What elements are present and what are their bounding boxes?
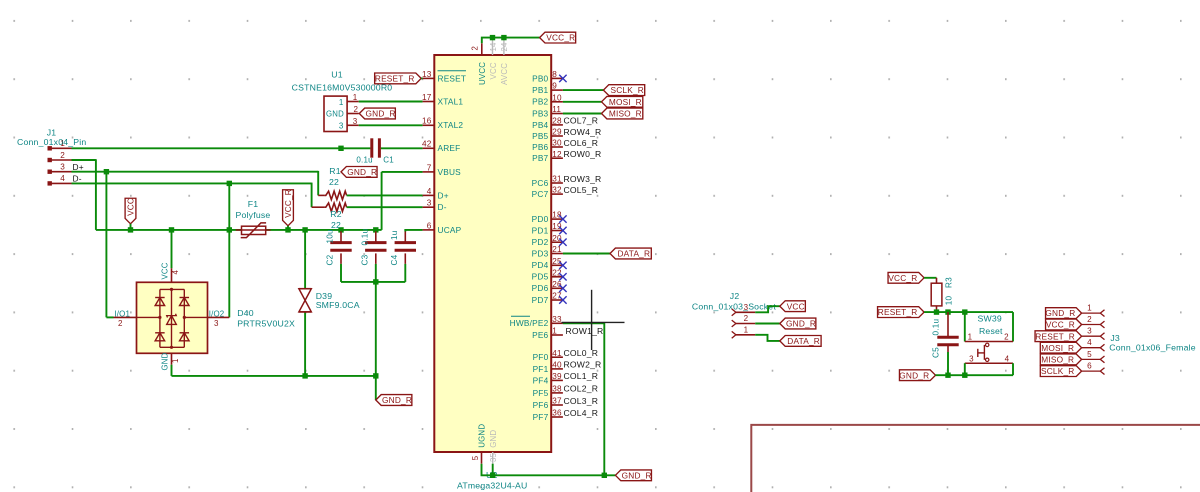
junction C5 top: [945, 309, 950, 314]
svg-text:2: 2: [354, 105, 359, 114]
svg-text:DATA_R: DATA_R: [617, 249, 650, 259]
connector J1 pins: [48, 146, 52, 150]
wire C1 right lead to AREF: [381, 147, 423, 149]
wire D- jog down to R2: [311, 183, 313, 208]
svg-text:SW39: SW39: [977, 314, 1001, 324]
svg-text:PF7: PF7: [533, 412, 549, 422]
pin J3 6: [1082, 370, 1101, 372]
junction SW left top: [962, 309, 967, 314]
junction AVCC pin top: [501, 35, 506, 40]
pin J3 3: [1082, 335, 1101, 337]
svg-text:COL2_R: COL2_R: [564, 384, 599, 394]
svg-text:GND: GND: [326, 110, 344, 119]
wire D- branch down to D40 I/O2: [228, 183, 230, 317]
svg-text:37: 37: [552, 397, 562, 406]
junction GND pin bottom: [490, 473, 495, 478]
svg-text:U1: U1: [331, 70, 343, 80]
global label RESET_R: [375, 73, 422, 84]
svg-text:PD4: PD4: [532, 260, 549, 270]
svg-text:14: 14: [489, 42, 498, 52]
svg-text:3: 3: [1087, 327, 1092, 336]
wire R1 to D+ pin: [347, 194, 423, 196]
svg-text:R2: R2: [330, 209, 342, 219]
svg-text:3: 3: [744, 303, 749, 312]
svg-text:J1: J1: [47, 128, 57, 138]
svg-text:ROW3_R: ROW3_R: [564, 174, 602, 184]
wire PB3 to MISO_R: [563, 113, 602, 115]
svg-text:22: 22: [552, 268, 562, 277]
resistor R1: [324, 191, 346, 199]
svg-text:30: 30: [552, 139, 562, 148]
svg-text:MISO_R: MISO_R: [609, 109, 642, 119]
svg-text:UVCC: UVCC: [478, 62, 487, 85]
junction D39 top: [302, 227, 307, 232]
wire D40 VCC pin: [171, 230, 173, 268]
wire PD3 to DATA_R: [563, 253, 610, 255]
pin J3 1: [1082, 312, 1101, 314]
svg-text:3: 3: [353, 117, 358, 126]
svg-text:C2: C2: [326, 254, 335, 265]
global label MISO_R: [602, 108, 643, 119]
svg-text:33: 33: [552, 315, 562, 324]
svg-text:2: 2: [1087, 315, 1092, 324]
svg-text:PC7: PC7: [532, 189, 549, 199]
wire SW left vertical: [964, 312, 966, 341]
svg-text:RESET_R: RESET_R: [1035, 331, 1075, 341]
wire J2 pin1 to DATA_R: [755, 335, 780, 341]
svg-text:10: 10: [945, 296, 954, 306]
svg-text:HWB/PE2: HWB/PE2: [510, 318, 549, 328]
svg-text:2: 2: [1004, 333, 1009, 342]
wire C5 top lead: [947, 312, 949, 337]
wire R3 top lead: [936, 278, 938, 283]
svg-text:4: 4: [60, 174, 65, 183]
wire reset row: [924, 311, 1013, 313]
svg-text:28: 28: [552, 117, 562, 126]
svg-text:GND_R: GND_R: [1045, 308, 1075, 318]
power label VCC_R: [283, 190, 294, 226]
svg-text:8: 8: [552, 70, 557, 79]
svg-text:2: 2: [60, 151, 65, 160]
global label GND_R at VBUS: [341, 167, 377, 178]
svg-text:PB1: PB1: [532, 85, 548, 95]
svg-text:PD2: PD2: [532, 237, 549, 247]
junction D+ branch: [104, 169, 109, 174]
svg-text:PB3: PB3: [532, 108, 548, 118]
svg-text:1: 1: [171, 358, 180, 363]
svg-text:22: 22: [331, 220, 341, 230]
fuse F1: [242, 226, 266, 234]
svg-text:1: 1: [1087, 304, 1092, 313]
svg-text:COL5_R: COL5_R: [564, 185, 599, 195]
svg-text:32: 32: [552, 186, 562, 195]
svg-text:MOSI_R: MOSI_R: [1041, 343, 1074, 353]
svg-text:PD7: PD7: [532, 295, 549, 305]
svg-text:PRTR5V0U2X: PRTR5V0U2X: [237, 319, 295, 329]
svg-text:1: 1: [552, 327, 557, 336]
wire VBUS: [382, 171, 423, 173]
svg-text:1u: 1u: [390, 230, 399, 240]
svg-text:COL6_R: COL6_R: [564, 138, 599, 148]
junction at C1 left node: [338, 146, 343, 151]
wire J2 pin3 to VCC: [755, 306, 780, 312]
wire VCC_R to R3: [924, 277, 936, 279]
svg-text:36: 36: [552, 409, 562, 418]
svg-text:42: 42: [422, 140, 432, 149]
svg-text:ROW4_R: ROW4_R: [564, 127, 602, 137]
pin D40 I/O1: [114, 316, 137, 318]
svg-text:11: 11: [552, 105, 561, 114]
svg-text:GND_R: GND_R: [382, 395, 412, 405]
wire C4 top to UCAP: [405, 230, 422, 232]
svg-text:SMF9.0CA: SMF9.0CA: [316, 300, 360, 310]
svg-text:31: 31: [552, 175, 562, 184]
svg-text:38: 38: [552, 385, 562, 394]
resistor R2: [324, 203, 346, 211]
global label VCC_R reset: [888, 272, 924, 283]
wire R3 bottom lead: [936, 306, 938, 312]
svg-text:3: 3: [214, 319, 219, 328]
svg-text:C4: C4: [390, 254, 399, 265]
ic right pin stubs: [551, 77, 563, 79]
svg-text:D+: D+: [438, 190, 449, 200]
wire SW pin3 drop: [964, 363, 966, 375]
svg-text:COL0_R: COL0_R: [564, 348, 599, 358]
svg-text:COL7_R: COL7_R: [564, 116, 599, 126]
svg-text:PD3: PD3: [532, 248, 549, 258]
svg-text:PB4: PB4: [532, 120, 548, 130]
pin J3 5: [1082, 358, 1101, 360]
svg-text:0.1u: 0.1u: [932, 319, 941, 336]
svg-text:3: 3: [60, 163, 65, 172]
svg-text:41: 41: [552, 349, 562, 358]
svg-text:ATmega32U4-AU: ATmega32U4-AU: [457, 480, 528, 490]
global label VCC_R top: [540, 32, 576, 43]
svg-text:24: 24: [500, 42, 509, 52]
junction VCC pill: [128, 227, 133, 232]
svg-text:PD6: PD6: [532, 283, 549, 293]
svg-text:GND_R: GND_R: [786, 319, 816, 329]
svg-text:UGND: UGND: [478, 424, 487, 448]
wire J1 pin1 to C1/AREF net: [72, 147, 342, 149]
svg-text:XTAL1: XTAL1: [438, 96, 464, 106]
svg-text:PF4: PF4: [533, 375, 549, 385]
wire SW pin4 drop: [1012, 363, 1014, 375]
svg-text:VCC: VCC: [127, 198, 136, 216]
svg-text:AREF: AREF: [438, 143, 461, 153]
svg-text:PD5: PD5: [532, 272, 549, 282]
svg-text:4: 4: [1005, 354, 1010, 363]
svg-text:R3: R3: [945, 277, 954, 288]
wire SW right vertical: [1012, 312, 1014, 341]
global label GND_R J3: [1046, 308, 1082, 319]
svg-text:Conn_01x04_Pin: Conn_01x04_Pin: [17, 137, 86, 147]
svg-text:PB0: PB0: [532, 73, 548, 83]
capacitor C4: [404, 231, 406, 242]
svg-text:F1: F1: [248, 199, 259, 209]
svg-text:J3: J3: [1110, 333, 1120, 343]
global label GND_R resonator: [359, 108, 395, 119]
junction VCC pin top: [490, 35, 495, 40]
svg-text:C5: C5: [932, 347, 941, 358]
svg-text:VCC_R: VCC_R: [1046, 320, 1075, 330]
svg-text:Reset: Reset: [979, 326, 1003, 336]
svg-text:MISO_R: MISO_R: [1041, 355, 1074, 365]
sheet outline: [751, 425, 1200, 492]
svg-text:5: 5: [1087, 350, 1092, 359]
wire UVCC to VCC_R: [482, 38, 540, 44]
cursor crosshair: [591, 290, 593, 350]
svg-text:RESET_R: RESET_R: [878, 307, 918, 317]
junction R3 bottom: [934, 309, 939, 314]
svg-text:PB7: PB7: [532, 153, 548, 163]
diode array D40 internals: [160, 288, 184, 290]
wire R2 left lead: [312, 206, 325, 208]
svg-text:2: 2: [744, 314, 749, 323]
svg-text:PC6: PC6: [532, 178, 549, 188]
svg-text:3: 3: [969, 354, 974, 363]
wire PB2 to MOSI_R: [563, 101, 602, 103]
svg-text:VBUS: VBUS: [438, 167, 462, 177]
svg-text:VCC_R: VCC_R: [284, 189, 293, 218]
wire resonator pin1 to XTAL1: [359, 101, 423, 103]
svg-text:PB6: PB6: [532, 142, 548, 152]
svg-text:MOSI_R: MOSI_R: [609, 97, 642, 107]
wire PB1 to SCLK_R: [563, 89, 604, 91]
junction caps bottom: [373, 279, 378, 284]
wire VBUS drop to bus: [381, 172, 383, 230]
svg-text:40: 40: [552, 361, 562, 370]
svg-text:4: 4: [427, 187, 432, 196]
no-connect marks right: [559, 75, 566, 82]
svg-text:10u: 10u: [326, 229, 335, 244]
wire C1 left lead: [341, 147, 370, 149]
global label GND_R bottom left: [376, 395, 412, 406]
svg-text:16: 16: [422, 117, 432, 126]
svg-text:J2: J2: [730, 291, 740, 301]
svg-text:PF1: PF1: [533, 364, 549, 374]
svg-text:PF5: PF5: [533, 388, 549, 398]
wire C5 bottom lead: [947, 345, 949, 352]
wire caps bottom to GND bus: [375, 282, 377, 376]
svg-text:1: 1: [339, 98, 344, 107]
pin J3 2: [1082, 324, 1101, 326]
svg-text:6: 6: [427, 221, 432, 230]
wire R2 to D- pin: [347, 206, 423, 208]
svg-text:5: 5: [471, 455, 480, 460]
global label VCC_R J3: [1046, 319, 1082, 330]
resistor R3: [931, 283, 942, 306]
svg-text:21: 21: [552, 245, 562, 254]
wire D+ branch down to D40 I/O1: [105, 172, 107, 318]
wire UGND to GND_R: [482, 464, 616, 476]
global label SCLK_R J3: [1040, 366, 1081, 377]
svg-text:35: 35: [489, 452, 498, 462]
wire J1 pin2 vertical to VCC bus: [95, 159, 97, 230]
svg-text:GND: GND: [160, 352, 169, 370]
svg-text:12: 12: [552, 150, 562, 159]
svg-text:D-: D-: [73, 174, 82, 184]
global label DATA_R: [610, 248, 651, 259]
svg-text:PE6: PE6: [532, 330, 548, 340]
svg-text:13: 13: [422, 70, 432, 79]
junction D- branch: [227, 181, 232, 186]
svg-text:3: 3: [427, 199, 432, 208]
junction D- crossing: [227, 227, 232, 232]
svg-text:18: 18: [552, 211, 562, 220]
svg-text:Polyfuse: Polyfuse: [236, 210, 271, 220]
pin UGND: [481, 452, 483, 464]
pin J3 4: [1082, 347, 1101, 349]
pin UVCC: [481, 43, 483, 55]
wire gnd row reset: [936, 374, 1014, 376]
svg-text:C3: C3: [360, 254, 369, 265]
svg-text:SCLK_R: SCLK_R: [611, 85, 644, 95]
svg-text:ROW1_R: ROW1_R: [566, 326, 604, 336]
svg-text:GND: GND: [489, 430, 498, 448]
wire resonator pin3 to XTAL2: [359, 124, 423, 126]
box D40: [137, 282, 208, 353]
power label VCC: [125, 198, 136, 224]
junction VCC_R pill: [285, 227, 290, 232]
svg-text:6: 6: [1087, 362, 1092, 371]
svg-text:COL1_R: COL1_R: [564, 371, 599, 381]
svg-text:7: 7: [427, 163, 432, 172]
svg-text:COL3_R: COL3_R: [564, 396, 599, 406]
svg-text:20: 20: [552, 234, 562, 243]
wire VCC bus: [96, 229, 382, 231]
svg-text:ROW0_R: ROW0_R: [564, 149, 602, 159]
svg-text:UCAP: UCAP: [438, 225, 462, 235]
svg-text:2: 2: [471, 46, 480, 51]
svg-text:2: 2: [118, 319, 123, 328]
svg-text:VCC_R: VCC_R: [888, 273, 917, 283]
box resonator U1: [324, 96, 347, 131]
wire D39 top: [304, 230, 306, 289]
svg-text:SCLK_R: SCLK_R: [1041, 366, 1074, 376]
global label MOSI_R J3: [1040, 342, 1081, 353]
global label MOSI_R: [602, 96, 643, 107]
svg-text:ROW2_R: ROW2_R: [564, 360, 602, 370]
svg-text:Conn_01x06_Female: Conn_01x06_Female: [1109, 343, 1195, 353]
junction D40 VCC: [169, 227, 174, 232]
svg-text:GND_R: GND_R: [366, 109, 396, 119]
wire D40 GND pin: [171, 353, 173, 365]
ic ATmega32U4 body: [434, 55, 551, 452]
svg-text:C1: C1: [383, 155, 394, 164]
svg-text:PD0: PD0: [532, 214, 549, 224]
junction GND drop: [373, 373, 378, 378]
junction D39 bottom: [302, 373, 307, 378]
svg-text:RESET_R: RESET_R: [375, 74, 415, 84]
capacitor C2: [340, 231, 342, 242]
svg-text:1: 1: [968, 333, 973, 342]
svg-text:VCC_R: VCC_R: [546, 33, 575, 43]
svg-text:COL4_R: COL4_R: [564, 408, 599, 418]
svg-text:39: 39: [552, 372, 562, 381]
wire PE2 to GND: [563, 323, 604, 475]
wire R1 left lead: [318, 194, 324, 196]
svg-text:1: 1: [353, 93, 358, 102]
svg-text:0.1u: 0.1u: [360, 229, 369, 246]
svg-text:1: 1: [744, 325, 749, 334]
global label RESET_R reset: [878, 307, 925, 318]
ic left pin stubs+numbers: [423, 77, 435, 79]
svg-text:0.1u: 0.1u: [356, 155, 372, 164]
svg-text:XTAL2: XTAL2: [438, 120, 464, 130]
svg-text:29: 29: [552, 128, 562, 137]
svg-text:4: 4: [171, 270, 180, 275]
svg-text:AVCC: AVCC: [500, 63, 509, 85]
pin resonator 1: [347, 101, 359, 103]
wire J1 pin3 D+ horizontal: [72, 171, 319, 173]
wire J1 pin4 D- horizontal: [72, 182, 312, 184]
capacitor C3: [375, 231, 377, 242]
svg-text:GND_R: GND_R: [899, 370, 929, 380]
wire J1 pin2 horizontal: [72, 159, 96, 161]
svg-text:R1: R1: [329, 166, 341, 176]
svg-text:PF6: PF6: [533, 400, 549, 410]
pin resonator 3: [347, 124, 359, 126]
connector J2 pins: [732, 309, 736, 316]
pin resonator 2: [347, 113, 359, 115]
global label GND_R bottom: [615, 470, 651, 481]
junction C3 top: [373, 227, 378, 232]
svg-text:26: 26: [552, 280, 562, 289]
svg-text:9: 9: [552, 82, 557, 91]
svg-text:PB5: PB5: [532, 131, 548, 141]
svg-text:4: 4: [1087, 338, 1092, 347]
wire caps bottom: [341, 281, 405, 283]
svg-text:22: 22: [329, 177, 339, 187]
svg-text:27: 27: [552, 292, 562, 301]
svg-text:17: 17: [422, 93, 432, 102]
svg-text:VCC: VCC: [787, 301, 805, 311]
svg-text:25: 25: [552, 257, 562, 266]
wire GND hidden pin drop: [492, 464, 494, 476]
svg-text:PB2: PB2: [532, 97, 548, 107]
svg-text:RESET: RESET: [438, 73, 467, 83]
svg-text:D-: D-: [438, 202, 447, 212]
pin GND hidden: [492, 452, 494, 464]
svg-text:GND_R: GND_R: [622, 470, 652, 480]
pin VCC hidden: [492, 39, 494, 56]
svg-text:3: 3: [339, 122, 344, 131]
capacitor C1: [370, 138, 373, 157]
wire RESET_R to pin: [421, 77, 422, 79]
junction C5 bottom: [945, 373, 950, 378]
wire J2 pin2 to GND_R: [755, 323, 780, 325]
svg-text:I/O2: I/O2: [209, 309, 225, 318]
pin D40 I/O2: [208, 316, 230, 318]
svg-text:PF0: PF0: [533, 352, 549, 362]
svg-text:10: 10: [552, 93, 562, 102]
global label GND_R J2: [780, 318, 816, 329]
svg-text:19: 19: [552, 222, 562, 231]
svg-text:Conn_01x03_Socket: Conn_01x03_Socket: [692, 301, 776, 311]
global label VCC J2: [780, 301, 806, 312]
svg-text:D40: D40: [237, 308, 254, 318]
svg-text:GND_R: GND_R: [347, 167, 377, 177]
junction C2 top: [338, 227, 343, 232]
diode D39: [299, 288, 311, 290]
global label DATA_R J2: [780, 336, 821, 347]
pin AVCC hidden: [503, 39, 505, 56]
svg-text:VCC: VCC: [160, 262, 169, 279]
global label SCLK_R: [603, 85, 644, 96]
svg-text:VCC: VCC: [489, 62, 498, 79]
svg-text:I/O1: I/O1: [114, 309, 130, 318]
